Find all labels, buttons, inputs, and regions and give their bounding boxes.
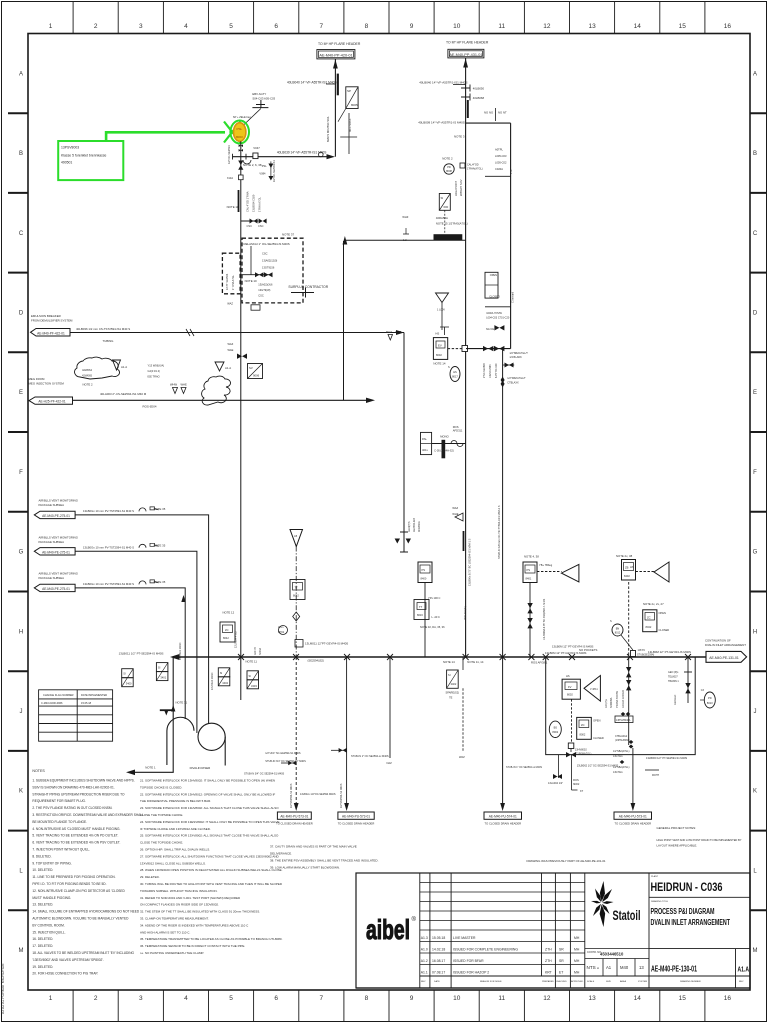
svg-text:MHZ: MHZ [386, 330, 392, 334]
svg-text:40LB036 1/2 mm CS-TST2594-IS1: 40LB036 1/2 mm CS-TST2594-IS1 M40 S [76, 327, 130, 331]
svg-text:SP: SP [347, 89, 351, 93]
svg-text:13LB00x 8.75" BC (SE2594-IS1 M: 13LB00x 8.75" BC (SE2594-IS1 M/M-1 S [468, 538, 472, 586]
svg-text:8016: 8016 [417, 613, 423, 617]
svg-text:G: G [753, 550, 758, 556]
flag AE-M40-PE-275-01 #2 [34, 548, 75, 555]
svg-text:E: E [19, 390, 23, 396]
svg-text:NOTE 12: NOTE 12 [223, 611, 235, 615]
instrument box PSV above main [418, 562, 432, 583]
wire in dashed box [241, 274, 270, 276]
svg-text:AE-M40-PP-420-01: AE-M40-PP-420-01 [319, 54, 352, 58]
wire V6 x404 [403, 333, 405, 553]
check diamonds x630 low [629, 740, 634, 749]
svg-text:A1.A: A1.A [738, 965, 750, 974]
svg-text:WAE: WAE [228, 348, 234, 352]
border letter ticks left [8, 113, 28, 910]
flag AE-M40-PE-131-01 [706, 651, 747, 662]
wire WAZ stub x463 [462, 688, 464, 752]
tick cluster right of riser [340, 113, 357, 154]
svg-text:4: 4 [184, 23, 188, 30]
svg-text:8400: 8400 [421, 577, 427, 581]
svg-text:8.75" BC-430: 8.75" BC-430 [495, 363, 498, 378]
svg-text:REV: REV [739, 981, 744, 983]
svg-text:PACKAGE SUBSEA: PACKAGE SUBSEA [39, 576, 65, 580]
svg-text:NOTE 31: NOTE 31 [176, 701, 188, 705]
instrument pair box 4 below main [247, 671, 259, 689]
svg-text:H: H [753, 629, 757, 635]
svg-text:MH: MH [574, 947, 580, 951]
svg-text:PS: PS [422, 568, 426, 572]
svg-text:13LB0M 12" PT-GEYR4-IS M40S: 13LB0M 12" PT-GEYR4-IS M40S [648, 650, 691, 654]
svg-text:GEO(P)S: GEO(P)S [408, 521, 411, 532]
instrument box PSAH above main [523, 562, 537, 583]
svg-text:ZC: ZC [581, 723, 585, 727]
svg-text:AE-M40-PE-275-01: AE-M40-PE-275-01 [42, 514, 70, 518]
svg-text:12: 12 [543, 23, 551, 30]
svg-text:TO CLOSED DRAIN HEADER: TO CLOSED DRAIN HEADER [485, 822, 522, 826]
svg-text:CTBLA0G2: CTBLA0G2 [615, 735, 628, 738]
svg-text:MFC SOTA: MFC SOTA [348, 119, 352, 132]
svg-text:F: F [753, 470, 757, 476]
svg-text:HS: HS [453, 370, 457, 374]
svg-text:ZB: ZB [625, 566, 629, 570]
svg-text:MONO: MONO [440, 435, 448, 439]
svg-text:PREPARED: PREPARED [542, 980, 554, 983]
dashed link box2-tri1 [537, 571, 562, 573]
svg-text:18. ALL VALVES TO BE WELDED UP: 18. ALL VALVES TO BE WELDED UPSTREAM INL… [32, 951, 134, 955]
wire package line 3 [75, 588, 185, 719]
svg-text:11: 11 [498, 995, 505, 1002]
flag AE-M40-PE-275-01 #3 [34, 584, 75, 591]
svg-text:B: B [19, 151, 23, 157]
wire MAIN manifold [179, 656, 706, 658]
svg-text:ISSUED FOR COMPLETE ENGINEERIN: ISSUED FOR COMPLETE ENGINEERING [453, 947, 518, 951]
svg-text:C3: C3 [701, 689, 705, 692]
svg-text:CTBLAXX: CTBLAXX [507, 382, 519, 385]
heat trace black box on H-C [434, 234, 463, 240]
svg-text:GENERAL PROJECT NOTES:: GENERAL PROJECT NOTES: [657, 826, 697, 830]
flag AE-M40-PP-431-01 [448, 49, 484, 58]
svg-text:401x: 401x [422, 448, 428, 452]
svg-text:8402: 8402 [624, 574, 630, 578]
svg-text:1.2: 1.2 [403, 238, 407, 242]
svg-text:HS: HS [630, 565, 634, 569]
svg-text:KT: KT [580, 790, 584, 793]
svg-text:AE-M40-PE-275-01: AE-M40-PE-275-01 [42, 587, 70, 591]
svg-text:L: L [19, 868, 23, 874]
wire stub V2 below main [462, 657, 464, 670]
svg-text:BS: BS [554, 726, 558, 730]
svg-text:3: 3 [139, 23, 143, 30]
svg-text:3400: 3400 [126, 682, 132, 686]
svg-text:AE2594-IGB: AE2594-IGB [413, 518, 416, 532]
svg-text:LIVE MASTER: LIVE MASTER [453, 936, 476, 940]
svg-text:S: S [448, 366, 450, 369]
wire H1 main to riser 1 [233, 156, 331, 158]
dashed drop from HS box [571, 699, 573, 743]
svg-text:PACKAGE SUBSEA: PACKAGE SUBSEA [39, 503, 65, 507]
flag AE-M40-PU-573-01 #4 [614, 812, 652, 819]
svg-text:40LB009 14"-VF-A55TR1-IS M40S: 40LB009 14"-VF-A55TR1-IS M40S [418, 121, 465, 125]
svg-text:MHz2: MHz2 [278, 631, 285, 634]
svg-text:TOWARDS SUBSEA. WITHOUT TRACIN: TOWARDS SUBSEA. WITHOUT TRACING INSULATI… [140, 889, 218, 893]
svg-text:10: 10 [453, 23, 461, 30]
svg-text:AREA: AREA [620, 980, 626, 983]
svg-text:GCG24 GOOEM: GCG24 GOOEM [622, 690, 625, 708]
svg-text:11: 11 [498, 23, 505, 30]
dashed box small left [222, 253, 240, 294]
svg-text:SI: SI [441, 196, 444, 200]
solenoid small box on V2 [462, 346, 468, 352]
svg-text:7: 7 [319, 995, 323, 1002]
svg-text:A1.1: A1.1 [421, 970, 428, 974]
svg-text:KRT: KRT [545, 970, 552, 974]
change flag table [39, 690, 113, 741]
svg-text:GEO (P)s: GEO (P)s [668, 671, 679, 674]
instrument SP 8005 [346, 87, 358, 109]
wire V7 x503 down to drain 3 [502, 349, 504, 808]
svg-text:A1.3: A1.3 [421, 936, 428, 940]
svg-text:CLOSE THE TOPSIDE CHOKE.: CLOSE THE TOPSIDE CHOKE. [140, 841, 183, 845]
riser circle exit [224, 737, 226, 766]
svg-text:15. INJECTION QUILL.: 15. INJECTION QUILL. [32, 930, 65, 934]
svg-text:7: 7 [319, 23, 323, 30]
svg-text:WAZ: WAZ [227, 302, 233, 306]
arrow H3 end [366, 398, 375, 403]
svg-text:40LA003 2"-CS-SE2594-IS1 M40 M: 40LA003 2"-CS-SE2594-IS1 M40 M [100, 392, 147, 396]
svg-text:AUTOMATIC BLOWDOWN. VOLUME TO: AUTOMATIC BLOWDOWN. VOLUME TO BE MANUALL… [32, 917, 129, 921]
svg-text:ON COMPACT FLANGES ON RISER SI: ON COMPACT FLANGES ON RISER SIDE OF 13DV… [140, 903, 219, 907]
svg-text:ET: ET [559, 970, 563, 974]
arrow up on bundle [181, 595, 185, 602]
svg-text:8042: 8042 [293, 594, 299, 598]
svg-text:STUB-IN 3/4" OC SE2594-S1 M40S: STUB-IN 3/4" OC SE2594-S1 M40S [244, 773, 285, 776]
instrument SI spare below main [447, 670, 459, 688]
instrument EV box (ESV) [433, 338, 447, 360]
svg-text:MACS MC2594 S04-: MACS MC2594 S04- [326, 116, 330, 142]
svg-text:19. DELETED.: 19. DELETED. [32, 965, 53, 969]
svg-text:13(A02)(X)6: 13(A02)(X)6 [258, 283, 273, 287]
svg-text:NOTE 10: NOTE 10 [245, 279, 257, 283]
svg-text:NOTE 15 1/2"RA5(A7GL): NOTE 15 1/2"RA5(A7GL) [436, 222, 468, 226]
svg-text:V047: V047 [253, 146, 260, 150]
check valves below oval [239, 144, 243, 151]
instrument PD circle right [704, 692, 715, 708]
svg-text:5: 5 [229, 995, 233, 1002]
svg-text:CLOSED: CLOSED [659, 628, 670, 632]
svg-text:L -40 C: L -40 C [432, 615, 441, 619]
TT cluster [414, 600, 429, 620]
arrow into drain flag 3 [500, 803, 505, 811]
highlight green arrow [224, 122, 241, 143]
svg-text:8. DELETED.: 8. DELETED. [32, 854, 51, 858]
svg-text:8012: 8012 [615, 632, 621, 635]
svg-text:15: 15 [679, 995, 687, 1002]
small box below dashed [251, 305, 260, 310]
svg-text:1/2"SB2594-S1 M40S: 1/2"SB2594-S1 M40S [340, 783, 343, 808]
svg-text:1 L00V: 1 L00V [437, 309, 445, 312]
svg-text:38. THE ENTIRE PSV ASSEMBLY SH: 38. THE ENTIRE PSV ASSEMBLY SHALL BE VEN… [270, 859, 379, 863]
svg-text:G4(3 19 4): G4(3 19 4) [148, 369, 161, 373]
svg-text:3401: 3401 [160, 676, 166, 680]
svg-text:7. INJECTION POINT WITHOUT QU: 7. INJECTION POINT WITHOUT QUILL. [32, 848, 90, 852]
valves on y221 [250, 219, 258, 224]
border ruler numbers top [49, 23, 732, 30]
svg-text:S04-C03 A05-C03: S04-C03 A05-C03 [252, 97, 275, 101]
svg-text:13LB0x4 10mm: 13LB0x4 10mm [211, 672, 214, 690]
svg-text:SIZE: SIZE [606, 981, 611, 983]
svg-text:MEG FROM: MEG FROM [29, 377, 45, 381]
svg-text:DRAWING TITLE: DRAWING TITLE [651, 900, 669, 903]
svg-text:DATE: DATE [434, 980, 440, 983]
blind tick on V2 [463, 531, 465, 551]
svg-text:AE-M40-PF-422-01: AE-M40-PF-422-01 [37, 331, 65, 335]
svg-text:14: 14 [634, 23, 642, 30]
inline square X10A [239, 175, 244, 180]
wire vertical x345 [343, 241, 345, 400]
svg-text:WHE: WHE [181, 383, 187, 387]
svg-text:SI: SI [123, 672, 126, 676]
NOTES column 1 [32, 779, 144, 976]
triangle A1.A mid [215, 362, 224, 371]
svg-text:STRAIGHT PIPING UPSTREAM PRODU: STRAIGHT PIPING UPSTREAM PRODUCTION RISE… [32, 792, 125, 796]
wire NAZ stub x390 [389, 657, 391, 758]
svg-text:EMULSION BREAKER: EMULSION BREAKER [31, 314, 61, 318]
arrow into drain flag 2 [344, 803, 349, 811]
rev header labels [421, 980, 744, 983]
svg-text:REASON FOR ISSUE: REASON FOR ISSUE [480, 980, 502, 983]
svg-text:AE-M40-PP-431-01: AE-M40-PP-431-01 [449, 53, 482, 57]
svg-text:SYSTEM: SYSTEM [638, 981, 647, 983]
highlight green ring [230, 121, 249, 144]
svg-text:CHANGE FLAG NUMBER: CHANGE FLAG NUMBER [43, 693, 74, 697]
dashed box RELASKAI [242, 238, 303, 303]
svg-text:NOTE 4, 38: NOTE 4, 38 [524, 555, 539, 559]
junction X marks on main [238, 654, 244, 660]
DIVALIN riser hump [167, 717, 194, 765]
border ruler bottom dividers [73, 990, 705, 1022]
svg-text:13LB0Gx 10 mm PV-TST2594-S1 M4: 13LB0Gx 10 mm PV-TST2594-S1 M40 S [83, 582, 134, 586]
check diamonds x630 [621, 712, 631, 716]
break symbol 1 [139, 508, 146, 511]
svg-text:J: J [20, 709, 23, 715]
svg-text:STUB(SE2594): STUB(SE2594) [637, 654, 654, 657]
instrument SV box mid [248, 364, 263, 379]
svg-text:5. VENT TRACING TO BE EXTENDE: 5. VENT TRACING TO BE EXTENDED 4m ON PD … [32, 834, 118, 838]
svg-text:15: 15 [679, 23, 687, 30]
flag AE-M40-PU-573-01 #2 [338, 812, 374, 819]
svg-text:Klasse 5 forenklet brennkasse: Klasse 5 forenklet brennkasse [61, 153, 107, 157]
svg-text:NOTE 2, 6, 38: NOTE 2, 6, 38 [243, 163, 262, 167]
svg-text:1: 1 [49, 995, 53, 1002]
svg-text:490501: 490501 [61, 161, 72, 165]
svg-text:A: A [19, 71, 23, 77]
svg-text:1/2"SB2594-S1 M40S: 1/2"SB2594-S1 M40S [290, 783, 293, 808]
svg-text:PROCESS P&I DIAGRAM: PROCESS P&I DIAGRAM [651, 907, 715, 916]
wire PSV diagonal to highlighted valve [242, 109, 261, 127]
svg-text:NAZ: NAZ [387, 761, 393, 765]
svg-text:13LB0M 12" PT-GEYR4 IS M40S: 13LB0M 12" PT-GEYR4 IS M40S [545, 651, 587, 655]
ESD triangle A5 [290, 530, 303, 547]
svg-text:ZC: ZC [647, 616, 651, 620]
svg-text:14. SMALL VOLUME OF ENTRAPPED: 14. SMALL VOLUME OF ENTRAPPED HYDROCARBO… [32, 910, 140, 914]
svg-text:37. CAUTY DRAIN AND VALVES IS: 37. CAUTY DRAIN AND VALVES IS PART OF TH… [270, 845, 357, 849]
svg-text:1. SUBSEA EQUIPMENT INCLUDES: 1. SUBSEA EQUIPMENT INCLUDES SHUTDOWN VA… [32, 779, 134, 783]
valves on H4 [483, 346, 493, 351]
svg-text:DVALIN INLET ARRANGEMENT: DVALIN INLET ARRANGEMENT [651, 918, 731, 927]
svg-text:NOTE 37: NOTE 37 [282, 233, 294, 237]
arrow H1 into riser [327, 154, 336, 159]
svg-text:TO M* HP FLARE HEADER: TO M* HP FLARE HEADER [318, 42, 361, 46]
actuator small on main x633 [631, 651, 636, 657]
svg-text:31. REFER TO NOR-6001 AND V-00: 31. REFER TO NOR-6001 AND V-001. TEST PO… [140, 896, 241, 900]
svg-text:GO FB: GO FB [254, 647, 257, 655]
svg-text:DVALIN INLET ARRANGEMENT: DVALIN INLET ARRANGEMENT [705, 643, 746, 647]
svg-text:40RA50A: 40RA50A [418, 521, 421, 532]
circles 2.5m MHz [279, 626, 288, 635]
check diamonds x503 [501, 377, 505, 388]
svg-text:FROM DEMULSIFIER SYSTEM: FROM DEMULSIFIER SYSTEM [31, 319, 73, 323]
svg-text:EBV AGTY: EBV AGTY [252, 92, 266, 96]
svg-text:36. TEMPERATURE SENSOR TO BE I: 36. TEMPERATURE SENSOR TO BE IN DIRECT C… [140, 944, 245, 948]
DIVALIN riser circle [198, 723, 225, 750]
wire HS diagonal [621, 635, 633, 650]
svg-text:3403: 3403 [251, 684, 257, 688]
svg-text:X10A: X10A [227, 177, 233, 180]
svg-text:8: 8 [365, 995, 369, 1002]
svg-text:1"RHA A7GL: 1"RHA A7GL [258, 197, 262, 212]
svg-text:TUBING: TUBING [103, 339, 115, 343]
svg-text:ISSUED FOR HAZOP 2: ISSUED FOR HAZOP 2 [453, 970, 489, 974]
svg-text:14.02.18: 14.02.18 [432, 947, 445, 951]
instrument BS ellipse in loop [549, 721, 561, 737]
highlight green note box [58, 141, 123, 180]
svg-text:YB+ 7Bbeg: YB+ 7Bbeg [539, 563, 553, 567]
svg-text:OPEN: OPEN [593, 719, 600, 723]
svg-text:SO8005A: SO8005A [610, 697, 613, 708]
svg-text:M: M [753, 948, 758, 954]
svg-text:13LB034 C020: 13LB034 C020 [252, 194, 256, 212]
small box 13PSV [615, 716, 633, 723]
svg-text:16. DELETED.: 16. DELETED. [32, 937, 53, 941]
svg-text:SI: SI [158, 666, 161, 670]
stub right low [645, 769, 659, 771]
wire H3 MEG [73, 399, 371, 401]
svg-text:NOTE 2x, 38: NOTE 2x, 38 [616, 554, 633, 558]
svg-text:3402: 3402 [222, 681, 228, 685]
NOTES column 2 [140, 779, 283, 956]
svg-text:11. LINE TO BE PREPARED FOR PI: 11. LINE TO BE PREPARED FOR PIGGING OPER… [32, 875, 115, 879]
svg-text:A1: A1 [606, 965, 612, 970]
svg-text:BN: BN [616, 628, 620, 631]
svg-text:NG NT: NG NT [498, 111, 507, 115]
svg-text:WAZ: WAZ [228, 342, 234, 346]
svg-text:B: B [753, 151, 757, 157]
svg-text:(TYP08/A7GL): (TYP08/A7GL) [575, 753, 592, 756]
svg-text:CLOSED: CLOSED [593, 736, 604, 740]
svg-text:IF TOPSIDE CHOKE AND 13XV8012: IF TOPSIDE CHOKE AND 13XV8012 ARE CLOSED… [140, 827, 211, 831]
instrument PSV 8003 highlighted oval [234, 123, 246, 142]
svg-text:13GT9156: 13GT9156 [262, 266, 275, 270]
svg-text:WHW: WHW [170, 383, 177, 387]
wire H-A y123 [466, 122, 511, 124]
svg-text:8042: 8042 [646, 625, 652, 629]
svg-text:TT: TT [295, 586, 299, 590]
wire H2 emulsion [70, 332, 404, 334]
svg-text:32. THE STEM OF THE TT SHALL B: 32. THE STEM OF THE TT SHALL BE INSULATE… [140, 910, 260, 914]
ZC open closed box upper [485, 272, 500, 298]
svg-text:HEIDRUN - C036: HEIDRUN - C036 [651, 880, 723, 894]
svg-text:13LB0Gx 10 mm PV-TST2594-S1 M4: 13LB0Gx 10 mm PV-TST2594-S1 M40 S [83, 546, 134, 550]
svg-text:MH: MH [574, 970, 580, 974]
svg-text:1000A 7072W: 1000A 7072W [486, 312, 502, 315]
svg-text:WHZ: WHZ [402, 215, 408, 219]
svg-text:PAL: PAL [422, 437, 427, 441]
wire stub y221 [241, 220, 258, 222]
actuated valve on loop bottom [566, 743, 576, 757]
wire riser main vertical [131, 657, 173, 772]
svg-text:12: 12 [543, 995, 551, 1002]
svg-text:13 PT SE2594: 13 PT SE2594 [226, 273, 229, 290]
svg-text:1/4 BLADK: 1/4 BLADK [509, 356, 522, 359]
svg-text:MUST' HANDLE PIGGING.: MUST' HANDLE PIGGING. [32, 896, 71, 900]
svg-text:13LB0Gx 10 mm PV-TST2594-S1 M4: 13LB0Gx 10 mm PV-TST2594-S1 M40 S [83, 509, 134, 513]
svg-text:V084: V084 [259, 171, 266, 175]
wire drain feed 4 [632, 748, 634, 806]
svg-text:DATE IMPLEMENTED: DATE IMPLEMENTED [81, 693, 107, 697]
wire x572 below loop [572, 755, 578, 790]
svg-text:1/2"OC-SE2594: 1/2"OC-SE2594 [227, 145, 231, 164]
svg-text:40RA50A: 40RA50A [436, 216, 448, 220]
svg-text:A0TPL: A0TPL [495, 148, 503, 152]
svg-text:40LB068: 40LB068 [473, 96, 485, 100]
svg-text:PSL: PSL [237, 127, 243, 131]
svg-text:C.forward: C.forward [512, 292, 515, 303]
svg-text:35. TEMPERATURE TRANSMITTER TO: 35. TEMPERATURE TRANSMITTER TO BE LOCATE… [140, 937, 283, 941]
svg-text:13LB060 1/2" PT-SE2594-S1 M40S: 13LB060 1/2" PT-SE2594-S1 M40S [646, 756, 687, 760]
diamond on chain [293, 612, 300, 621]
svg-text:STUB-IN 1" OC SE2594-xx M40S: STUB-IN 1" OC SE2594-xx M40S [506, 766, 542, 769]
svg-text:GEOxxxF: GEOxxxF [674, 694, 677, 705]
instrument SI 600 [439, 194, 450, 211]
arrow main start [170, 654, 180, 660]
svg-text:4: 4 [184, 995, 188, 1002]
svg-text:SI: SI [249, 674, 252, 678]
svg-text:MH: MH [574, 936, 580, 940]
svg-text:AE-M40-PU-574-01: AE-M40-PU-574-01 [489, 815, 517, 819]
svg-text:BE MOUNTED FLANGE TO FLANGE.: BE MOUNTED FLANGE TO FLANGE. [32, 820, 87, 824]
svg-text:AE-M40-PE-275-01: AE-M40-PE-275-01 [42, 551, 70, 555]
svg-text:AE-M40-PU-573-01: AE-M40-PU-573-01 [280, 815, 308, 819]
svg-text:HS: HS [435, 332, 439, 336]
svg-text:PACKAGE SUBSEA: PACKAGE SUBSEA [39, 540, 65, 544]
svg-text:ROS 6D04: ROS 6D04 [143, 405, 157, 409]
svg-text:GO (P)s: GO (P)s [605, 698, 608, 708]
flag AE-H25-PF-422-01 [29, 397, 73, 404]
wire V10 x630 drop [628, 582, 630, 657]
svg-text:10: 10 [453, 995, 461, 1002]
svg-text:MH: MH [574, 959, 580, 963]
svg-text:A1.A: A1.A [121, 365, 127, 369]
svg-text:12. NON-INTRUSIVE CLAMP-ON PIG: 12. NON-INTRUSIVE CLAMP-ON PIG DETECTOR … [32, 889, 125, 893]
svg-text:39. LOW ALARM MANUALLY START B: 39. LOW ALARM MANUALLY START BLOWDOWN. [270, 866, 340, 870]
instrument pair box 1 below main [122, 669, 134, 687]
svg-text:33. CLAMP-ON TEMPERATURE MEASU: 33. CLAMP-ON TEMPERATURE MEASUREMENT. [140, 917, 209, 921]
svg-text:NOTE 2: NOTE 2 [442, 157, 453, 161]
svg-text:16: 16 [724, 995, 732, 1002]
break symbol 2 [139, 544, 146, 548]
svg-text:THE DIFFERENTIAL PRESSURE IS B: THE DIFFERENTIAL PRESSURE IS BELOW 5 BAR… [140, 799, 211, 803]
